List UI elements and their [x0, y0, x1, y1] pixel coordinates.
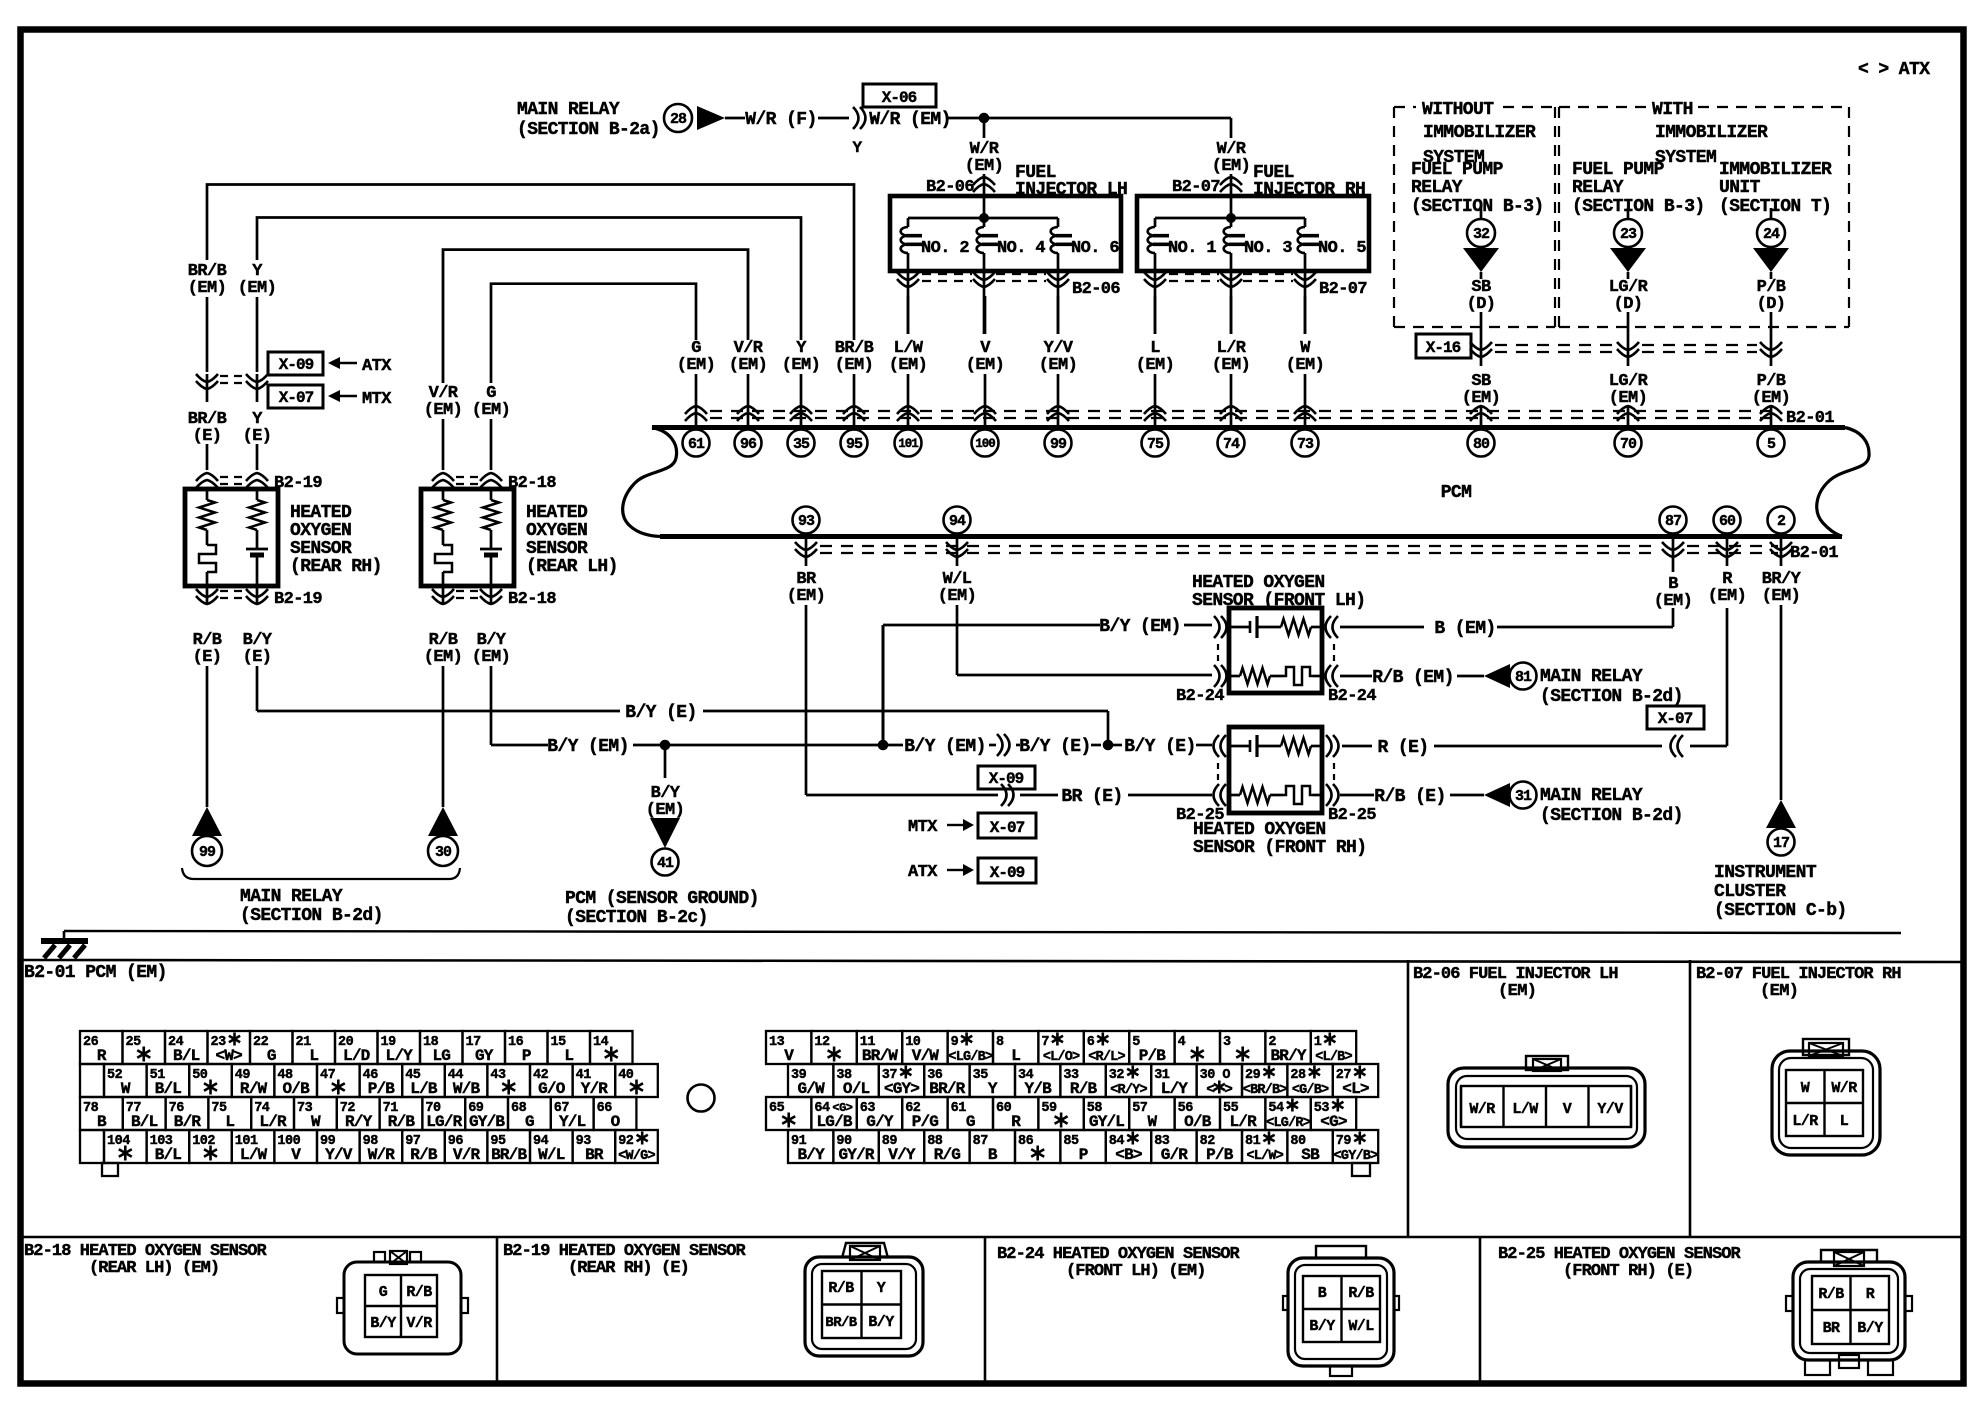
wire R/B (EM) to main relay 81 [1340, 668, 1484, 688]
wire P/B (D) [1757, 278, 1786, 342]
svg-text:60: 60 [1719, 513, 1736, 530]
svg-text:(SECTION B-3): (SECTION B-3) [1411, 197, 1544, 217]
connector face B2-18 [337, 1251, 468, 1354]
svg-text:B/Y (EM): B/Y (EM) [1099, 617, 1181, 637]
svg-text:G: G [966, 1113, 975, 1131]
sense resistor in B2-19 [249, 489, 265, 548]
component label FUEL INJECTOR RH [1253, 163, 1365, 200]
svg-text:X-07: X-07 [990, 819, 1025, 837]
svg-text:L: L [225, 1113, 234, 1131]
connector X-06 inline [852, 84, 936, 157]
svg-text:7: 7 [1041, 1035, 1049, 1050]
connector face B2-19 [805, 1243, 923, 1356]
svg-text:(EM): (EM) [677, 356, 715, 375]
svg-text:X-07: X-07 [1658, 710, 1693, 728]
svg-text:G/Y: G/Y [866, 1113, 894, 1131]
svg-text:P/B: P/B [1206, 1146, 1234, 1164]
svg-text:75: 75 [1147, 436, 1164, 453]
svg-text:MAIN RELAY: MAIN RELAY [517, 100, 620, 120]
PCM pin 99 [1045, 430, 1072, 457]
svg-text:B/L: B/L [173, 1047, 200, 1065]
svg-text:W/R (EM): W/R (EM) [869, 110, 951, 130]
svg-text:WITHOUT: WITHOUT [1422, 100, 1494, 120]
svg-text:Y/V: Y/V [1597, 1101, 1623, 1118]
component label HEATED OXYGEN SENSOR (FRONT RH) [1193, 820, 1366, 858]
svg-text:PCM: PCM [1441, 483, 1472, 503]
heater resistor in B2-25 [1229, 787, 1283, 803]
svg-text:R/W: R/W [240, 1080, 268, 1098]
svg-text:W/L: W/L [1348, 1318, 1374, 1335]
PCM pin 5 [1758, 430, 1785, 457]
svg-text:V: V [1563, 1101, 1572, 1118]
svg-text:W: W [1801, 1080, 1810, 1097]
connector X-07 crossing on BR wire [1001, 784, 1014, 806]
wire R/B (E) to main relay 99 [193, 631, 222, 807]
wire BR/B (EM) from PCM pin 95 [188, 185, 874, 427]
svg-text:80: 80 [1473, 436, 1490, 453]
svg-text:<G/B>: <G/B> [1292, 1083, 1329, 1098]
PCM top bus bar [623, 428, 1845, 537]
svg-text:NO. 6: NO. 6 [1071, 239, 1119, 258]
svg-text:B/Y: B/Y [370, 1315, 396, 1332]
svg-text:32: 32 [1473, 226, 1490, 243]
svg-text:L/R: L/R [1229, 1113, 1257, 1131]
svg-text:24: 24 [1763, 226, 1780, 243]
heater element in B2-25 [1283, 786, 1322, 804]
svg-text:14: 14 [593, 1035, 609, 1050]
svg-text:(EM): (EM) [889, 356, 927, 375]
svg-text:W/B: W/B [453, 1080, 481, 1098]
B2-01 pin cells 26 to 14 [80, 1031, 123, 1064]
svg-text:57: 57 [1132, 1101, 1148, 1116]
svg-text:X-09: X-09 [989, 770, 1024, 788]
svg-text:(EM): (EM) [1762, 587, 1800, 606]
wire L/W (EM) injector to PCM [889, 296, 927, 426]
svg-text:NO. 5: NO. 5 [1318, 239, 1366, 258]
svg-text:BR: BR [1823, 1320, 1840, 1337]
connector B2-18 crossing above sensor [432, 473, 556, 493]
svg-text:L/R: L/R [1792, 1113, 1818, 1130]
svg-text:X-07: X-07 [279, 389, 314, 407]
svg-text:BR/Y: BR/Y [1270, 1047, 1306, 1065]
panel divider lines [22, 960, 1963, 1384]
svg-text:FUEL PUMP: FUEL PUMP [1572, 160, 1665, 180]
wire W/R (EM) drop to fuel injector RH [1212, 118, 1250, 176]
svg-text:<L/W>: <L/W> [1246, 1149, 1283, 1164]
svg-text:HEATED OXYGEN: HEATED OXYGEN [1193, 820, 1326, 840]
svg-text:61: 61 [951, 1101, 967, 1116]
connector B2-18 crossing below sensor [432, 586, 556, 609]
svg-text:29: 29 [1245, 1068, 1261, 1083]
wire L/R (EM) injector to PCM [1212, 296, 1250, 426]
wire BR/Y (EM) from pin 2 to instrument cluster [1762, 570, 1802, 800]
heater resistor in B2-24 [1229, 668, 1283, 684]
svg-text:93: 93 [798, 513, 815, 530]
svg-text:OXYGEN: OXYGEN [526, 521, 587, 541]
svg-text:R/B: R/B [388, 1113, 416, 1131]
svg-text:B2-25: B2-25 [1328, 806, 1376, 825]
svg-text:R/B: R/B [406, 1284, 432, 1301]
component label HEATED OXYGEN SENSOR (REAR RH) [290, 503, 382, 577]
svg-text:(SECTION T): (SECTION T) [1719, 197, 1831, 217]
svg-text:B2-01: B2-01 [1790, 544, 1838, 563]
wire B/Y (E) from rear RH sensor [243, 631, 1108, 740]
wire B/Y (EM) continuing to X-09 [670, 737, 996, 757]
svg-text:L: L [1011, 1047, 1020, 1065]
svg-text:BR (E): BR (E) [1061, 787, 1122, 807]
svg-text:>: > [1224, 1082, 1232, 1098]
junction node B/Y branch [878, 740, 888, 750]
component label FUEL PUMP RELAY (SECTION B-3) with immobilizer [1572, 160, 1705, 217]
svg-text:V: V [291, 1146, 301, 1164]
svg-text:87: 87 [973, 1134, 989, 1149]
svg-text:G/R: G/R [1161, 1146, 1189, 1164]
svg-text:MTX: MTX [908, 818, 938, 837]
PCM pin 87 [1660, 507, 1687, 534]
svg-text:B/Y: B/Y [868, 1314, 894, 1331]
heated oxygen sensor box B2-19 [185, 489, 278, 586]
svg-text:(REAR LH) (EM): (REAR LH) (EM) [89, 1259, 219, 1278]
svg-text:R/B (EM): R/B (EM) [1372, 668, 1454, 688]
svg-text:MAIN RELAY: MAIN RELAY [1540, 667, 1643, 687]
wire G (EM) from PCM pin 61 [472, 284, 715, 470]
svg-text:BR/R: BR/R [929, 1080, 965, 1098]
svg-text:BR/B: BR/B [825, 1315, 857, 1331]
svg-text:8: 8 [996, 1035, 1004, 1050]
svg-text:ATX: ATX [362, 357, 392, 376]
wire B/Y (E) into front RH sensor [1113, 737, 1212, 757]
wire W/R (F) [725, 110, 849, 130]
wire V/R (EM) from PCM pin 96 [424, 250, 767, 470]
svg-text:13: 13 [769, 1035, 785, 1050]
svg-text:(EM): (EM) [472, 401, 510, 420]
panel title B2-07 FUEL INJECTOR RH (EM) [1696, 965, 1901, 1001]
wire LG/R (D) [1609, 278, 1649, 342]
svg-text:P: P [1079, 1146, 1088, 1164]
svg-text:SENSOR: SENSOR [526, 539, 588, 559]
svg-text:30 O: 30 O [1200, 1068, 1231, 1083]
svg-text:L: L [564, 1047, 573, 1065]
svg-text:NO. 1: NO. 1 [1168, 239, 1216, 258]
svg-text:<GY/B>: <GY/B> [1334, 1149, 1379, 1164]
heater resistor in B2-19 [199, 489, 215, 545]
svg-text:(REAR RH) (E): (REAR RH) (E) [568, 1259, 689, 1278]
svg-text:BR: BR [585, 1146, 604, 1164]
sense resistor in B2-25 [1281, 738, 1322, 754]
svg-text:R/G: R/G [934, 1146, 961, 1164]
svg-text:Y: Y [988, 1080, 998, 1098]
PCM pin 80 [1468, 430, 1495, 457]
wire SB (EM) [1462, 372, 1500, 426]
svg-text:MAIN RELAY: MAIN RELAY [1540, 786, 1643, 806]
svg-text:B2-19: B2-19 [274, 590, 322, 609]
svg-text:HEATED: HEATED [290, 503, 352, 523]
svg-text:O/B: O/B [282, 1080, 310, 1098]
svg-text:3: 3 [1223, 1035, 1231, 1050]
injector coil NO. 3 [1224, 218, 1293, 271]
panel title B2-19 HEATED OXYGEN SENSOR (REAR RH) (E) [503, 1242, 747, 1278]
svg-text:(EM): (EM) [646, 801, 684, 820]
PCM pin 35 [788, 430, 815, 457]
brace main relay 99/30 group [182, 868, 460, 926]
connector face B2-24 [1283, 1246, 1399, 1376]
svg-text:17: 17 [1773, 835, 1789, 852]
svg-text:RELAY: RELAY [1411, 178, 1463, 198]
svg-text:40: 40 [618, 1068, 634, 1083]
svg-text:<L/O>: <L/O> [1043, 1050, 1080, 1065]
svg-text:Y/V: Y/V [325, 1146, 353, 1164]
svg-text:(EM): (EM) [966, 356, 1004, 375]
svg-text:L/B: L/B [410, 1080, 438, 1098]
svg-text:<R/Y>: <R/Y> [1110, 1083, 1147, 1098]
svg-text:28: 28 [1290, 1068, 1306, 1083]
svg-text:(FRONT RH) (E): (FRONT RH) (E) [1563, 1262, 1693, 1281]
svg-text:R/B: R/B [1070, 1080, 1098, 1098]
component label FUEL PUMP RELAY (SECTION B-3) without immobilizer [1411, 160, 1544, 217]
svg-text:B: B [1318, 1285, 1327, 1302]
svg-text:W: W [311, 1113, 321, 1131]
svg-text:28: 28 [670, 111, 687, 128]
PCM connector B2-01 pin grid left block [80, 1031, 658, 1176]
heater resistor in B2-18 [435, 489, 451, 545]
off-page arrow 17 instrument cluster [1714, 800, 1847, 921]
off-page arrow 23 fuel pump relay [1610, 208, 1646, 279]
svg-text:V: V [784, 1047, 794, 1065]
svg-text:B/Y (E): B/Y (E) [1124, 737, 1195, 757]
svg-text:LG/B: LG/B [816, 1113, 852, 1131]
svg-text:(EM): (EM) [787, 587, 825, 606]
svg-text:INSTRUMENT: INSTRUMENT [1714, 863, 1817, 883]
svg-text:ATX: ATX [908, 863, 938, 882]
sense resistor in B2-18 [483, 489, 499, 548]
svg-text:L: L [1840, 1113, 1849, 1130]
svg-text:W/R: W/R [1831, 1080, 1857, 1097]
svg-text:59: 59 [1041, 1101, 1057, 1116]
svg-text:95: 95 [846, 436, 863, 453]
svg-text:(EM): (EM) [238, 279, 276, 298]
sensor cell in B2-19 [246, 549, 268, 586]
svg-text:23: 23 [1620, 226, 1637, 243]
svg-text:(EM): (EM) [1654, 592, 1692, 611]
svg-text:O: O [611, 1113, 621, 1131]
svg-text:<L>: <L> [1342, 1080, 1369, 1098]
PCM pin 95 [841, 430, 868, 457]
svg-text:R/Y: R/Y [345, 1113, 373, 1131]
svg-text:(EM): (EM) [1212, 157, 1250, 176]
svg-text:B2-19: B2-19 [274, 474, 322, 493]
svg-text:X-09: X-09 [990, 864, 1025, 882]
svg-text:Y/B: Y/B [1024, 1080, 1052, 1098]
svg-text:B/L: B/L [155, 1080, 182, 1098]
power source MAIN RELAY (SECTION B-2a) label [517, 100, 660, 140]
PCM pin 61 [683, 430, 710, 457]
heater element in B2-19 [199, 545, 216, 586]
svg-text:B/Y: B/Y [797, 1146, 825, 1164]
svg-text:74: 74 [1223, 436, 1240, 453]
svg-text:B/L: B/L [155, 1146, 182, 1164]
sensor cell in B2-24 [1229, 616, 1281, 638]
connector B2-24 crossing left of front LH sensor [1176, 616, 1227, 706]
svg-text:4: 4 [1178, 1035, 1186, 1050]
svg-text:GY/L: GY/L [1089, 1113, 1124, 1131]
PCM pin 101 [895, 430, 922, 457]
svg-text:99: 99 [199, 844, 216, 861]
connector face B2-06 [1448, 1056, 1645, 1147]
svg-text:R/B (E): R/B (E) [1374, 787, 1445, 807]
svg-text:NO. 2: NO. 2 [921, 239, 969, 258]
connector X-16 crossing [1416, 334, 1782, 366]
heated oxygen sensor box B2-25 (front RH) [1229, 727, 1322, 813]
wire B/Y (E) after X-09 [1016, 737, 1101, 757]
wire B/Y (EM) stub to PCM sensor ground 41 [646, 745, 684, 820]
svg-text:<G>: <G> [1320, 1113, 1347, 1131]
dashed box WITH IMMOBILIZER SYSTEM [1559, 100, 1849, 327]
svg-text:V/Y: V/Y [888, 1146, 916, 1164]
svg-text:99: 99 [1050, 436, 1067, 453]
component label HEATED OXYGEN SENSOR (REAR LH) [526, 503, 618, 577]
junction node injector LH rail [980, 214, 989, 223]
svg-text:L/W: L/W [240, 1146, 268, 1164]
svg-text:Y/R: Y/R [581, 1080, 609, 1098]
component label HEATED OXYGEN SENSOR (FRONT LH) [1192, 573, 1365, 611]
svg-text:35: 35 [793, 436, 810, 453]
svg-text:V/R: V/R [406, 1315, 432, 1332]
svg-text:B2-24: B2-24 [1176, 687, 1224, 706]
component label IMMOBILIZER UNIT (SECTION T) [1719, 160, 1832, 217]
svg-text:OXYGEN: OXYGEN [290, 521, 351, 541]
svg-text:B2-07 FUEL INJECTOR RH: B2-07 FUEL INJECTOR RH [1696, 965, 1901, 984]
wire B (EM) from front LH sensor to pin 87 [1340, 566, 1692, 639]
svg-text:B: B [988, 1146, 998, 1164]
wire W/R (EM) drop to fuel injector LH [965, 118, 1003, 176]
connector B2-01 crossing below PCM bottom bus [795, 539, 1838, 566]
heated oxygen sensor box B2-18 [421, 489, 514, 586]
svg-text:HEATED OXYGEN: HEATED OXYGEN [1192, 573, 1325, 593]
B2-01 pin cells 52 to 40 [104, 1064, 147, 1097]
dashed box WITHOUT IMMOBILIZER SYSTEM [1394, 100, 1555, 327]
svg-text:G: G [525, 1113, 534, 1131]
wire W (EM) injector to PCM [1286, 296, 1324, 426]
svg-text:(REAR RH): (REAR RH) [290, 557, 382, 577]
svg-text:B/Y: B/Y [1309, 1318, 1335, 1335]
connector B2-07 crossing below injector RH [1144, 271, 1367, 299]
svg-text:PCM (SENSOR GROUND): PCM (SENSOR GROUND) [565, 889, 759, 909]
PCM pin 73 [1292, 430, 1319, 457]
svg-text:P/B: P/B [368, 1080, 396, 1098]
svg-text:R (E): R (E) [1377, 738, 1428, 758]
svg-text:FUEL PUMP: FUEL PUMP [1411, 160, 1504, 180]
note MTX connector X-07 [908, 813, 1036, 838]
wire B/Y (EM) branch up to front LH sensor [883, 617, 1212, 745]
svg-text:102: 102 [192, 1134, 215, 1149]
svg-text:IMMOBILIZER: IMMOBILIZER [1423, 123, 1536, 143]
svg-text:1: 1 [1314, 1035, 1322, 1050]
svg-text:<LG/B>: <LG/B> [948, 1050, 993, 1065]
svg-text:X-06: X-06 [882, 89, 917, 107]
svg-text:81: 81 [1515, 669, 1532, 686]
svg-text:B (EM): B (EM) [1434, 619, 1495, 639]
svg-text:B: B [97, 1113, 107, 1131]
injector coil NO. 4 [977, 218, 1046, 271]
svg-text:70: 70 [1620, 436, 1637, 453]
B2-01 pin cells 39 to 27* [788, 1064, 833, 1097]
svg-text:50: 50 [192, 1068, 208, 1083]
wire W/R (EM) to RH injector drop [984, 117, 1231, 120]
svg-text:R/B: R/B [410, 1146, 438, 1164]
connector B2-06 crossing at injector LH [926, 174, 995, 197]
wire V (EM) injector to PCM [966, 296, 1004, 426]
wire L (EM) injector to PCM [1136, 296, 1174, 426]
off-page arrow 28 from main relay [664, 104, 725, 132]
svg-text:B2-24: B2-24 [1328, 687, 1376, 706]
svg-text:R/B: R/B [828, 1280, 854, 1297]
svg-text:W: W [1147, 1113, 1157, 1131]
svg-text:(EM): (EM) [835, 356, 873, 375]
wire R/B (EM) to main relay 30 [424, 631, 462, 807]
injector coil NO. 6 [1051, 218, 1120, 271]
svg-text:<W>: <W> [216, 1047, 243, 1065]
svg-text:25: 25 [126, 1035, 142, 1050]
svg-text:85: 85 [1063, 1134, 1079, 1149]
svg-text:(D): (D) [1757, 295, 1786, 314]
wire BR (E) into front RH sensor [1020, 787, 1212, 807]
svg-text:R/B: R/B [1818, 1286, 1844, 1303]
connector X-07 callout box with MTX arrow [268, 385, 392, 409]
panel title B2-01 PCM (EM) [24, 963, 167, 983]
PCM connector mounting hole [688, 1085, 715, 1112]
wire W/L (EM) from pin 94 [938, 570, 1212, 675]
svg-text:(EM): (EM) [1708, 587, 1746, 606]
svg-text:G/W: G/W [797, 1080, 825, 1098]
svg-text:2: 2 [1777, 513, 1786, 530]
svg-text:< > ATX: < > ATX [1858, 60, 1930, 80]
svg-text:54: 54 [1268, 1101, 1284, 1116]
svg-text:Y: Y [877, 1280, 886, 1297]
svg-text:(EM): (EM) [424, 648, 462, 667]
svg-text:G: G [267, 1047, 276, 1065]
svg-text:(REAR LH): (REAR LH) [526, 557, 618, 577]
svg-text:104: 104 [107, 1134, 130, 1149]
junction node B/Y (E) from rear feed [1103, 740, 1113, 750]
svg-text:(SECTION B-3): (SECTION B-3) [1572, 197, 1705, 217]
svg-text:G/O: G/O [538, 1080, 566, 1098]
svg-text:UNIT: UNIT [1719, 178, 1761, 198]
svg-text:V/R: V/R [453, 1146, 481, 1164]
connector X-09 crossing on B/Y wire [978, 734, 1035, 789]
note ATX connector X-09 [908, 858, 1036, 883]
PCM label [1441, 483, 1472, 503]
svg-text:<L/B>: <L/B> [1315, 1050, 1352, 1065]
svg-text:P/G: P/G [912, 1113, 939, 1131]
svg-text:CLUSTER: CLUSTER [1714, 882, 1786, 902]
svg-text:81: 81 [1245, 1134, 1261, 1149]
svg-text:12: 12 [814, 1035, 830, 1050]
svg-text:43: 43 [490, 1068, 506, 1083]
svg-text:B/L: B/L [131, 1113, 158, 1131]
svg-text:B2-18: B2-18 [508, 590, 556, 609]
svg-text:61: 61 [688, 436, 705, 453]
svg-text:101: 101 [898, 437, 918, 451]
svg-text:G: G [379, 1284, 388, 1301]
svg-text:IMMOBILIZER: IMMOBILIZER [1655, 123, 1768, 143]
wire schematic bottom rail [64, 931, 1901, 933]
svg-text:Y: Y [852, 139, 862, 157]
svg-text:BR/B: BR/B [491, 1146, 527, 1164]
svg-text:W/L: W/L [538, 1146, 565, 1164]
svg-text:96: 96 [740, 436, 757, 453]
svg-text:SENSOR (FRONT RH): SENSOR (FRONT RH) [1193, 838, 1366, 858]
connector face B2-07 [1772, 1039, 1880, 1155]
